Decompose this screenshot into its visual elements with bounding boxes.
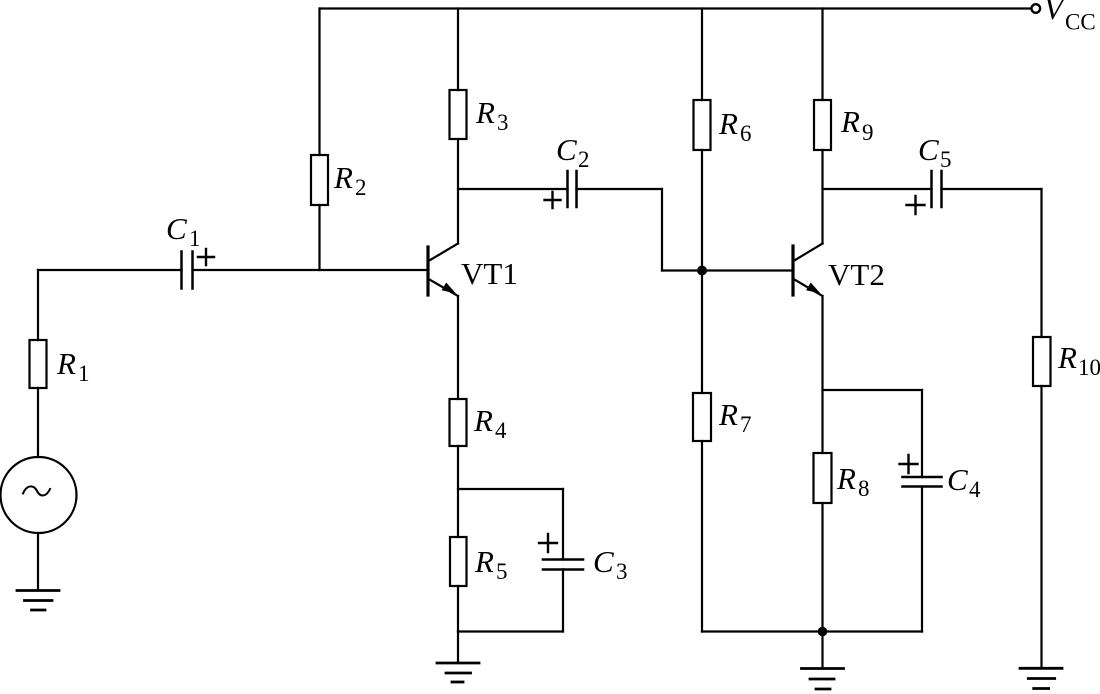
transistor VT1 <box>428 244 458 297</box>
wire R5 bottom to bottom row <box>457 586 459 632</box>
wire C4 bottom drop <box>921 487 923 632</box>
wire input node to C1 <box>38 269 182 271</box>
svg-text:4: 4 <box>969 477 981 502</box>
svg-text:C: C <box>166 211 187 246</box>
source signal generator <box>1 457 77 533</box>
svg-text:VT1: VT1 <box>461 256 518 291</box>
wire R6 top drop from rail <box>701 9 703 101</box>
svg-text:9: 9 <box>862 120 874 145</box>
svg-text:R: R <box>474 544 494 579</box>
svg-text:2: 2 <box>355 175 367 200</box>
capacitor C2 <box>568 171 577 207</box>
ground G3 <box>802 669 844 690</box>
resistor R10 <box>1033 337 1051 386</box>
wire R7 bottom drop <box>701 441 703 632</box>
svg-text:1: 1 <box>189 226 201 251</box>
plus sign of C5 <box>907 196 925 214</box>
svg-text:R: R <box>836 461 856 496</box>
capacitor C3 <box>543 560 583 570</box>
plus sign of C1 <box>198 249 214 265</box>
wire VT1 collector to C2 <box>458 188 568 190</box>
wire C3 bottom drop <box>562 570 564 632</box>
resistor R9 <box>814 100 831 150</box>
wire R9 top drop from rail <box>821 9 823 101</box>
svg-text:7: 7 <box>740 412 752 437</box>
wire emitter junction to C4 <box>823 389 923 391</box>
resistor R7 <box>693 393 711 441</box>
svg-text:R: R <box>1057 340 1077 375</box>
wire R3 top drop from rail <box>457 9 459 91</box>
svg-text:R: R <box>718 397 738 432</box>
junction node on R6 line <box>697 266 707 276</box>
wire C5 to right corner <box>942 188 1042 190</box>
wire R1 to source <box>37 388 39 457</box>
wire top VCC rail <box>320 7 1032 9</box>
wire bottom row R7 to C4 <box>702 630 922 632</box>
svg-text:R: R <box>333 160 353 195</box>
wire to VT2 base <box>662 269 793 271</box>
svg-text:10: 10 <box>1078 355 1100 380</box>
svg-text:5: 5 <box>940 147 952 172</box>
node VCC terminal <box>1032 4 1041 13</box>
resistor R4 <box>450 399 467 446</box>
wire R2 top drop from rail <box>318 9 320 156</box>
wire C3 top drop <box>562 489 564 560</box>
capacitor C1 <box>182 252 193 289</box>
wire R8 bottom to bottom row <box>821 503 823 632</box>
resistor R6 <box>694 100 711 150</box>
plus sign of C2 <box>545 192 561 208</box>
resistor R1 <box>30 340 47 388</box>
wire VT2 collector to C5 <box>823 188 932 190</box>
wire R6 bottom through node to R7 <box>701 150 703 393</box>
svg-text:R: R <box>473 403 493 438</box>
wire junction R4/R5 to C3 <box>458 488 563 490</box>
wire corner down <box>661 189 663 271</box>
wire C1 to base of VT1 <box>193 269 429 271</box>
svg-text:CC: CC <box>1065 10 1096 35</box>
wire C2 right to corner <box>577 188 663 190</box>
wire R2 bottom to base row <box>318 205 320 270</box>
wire R3 bottom to VT1 collector <box>457 139 459 244</box>
svg-text:1: 1 <box>78 361 90 386</box>
svg-text:6: 6 <box>740 121 752 146</box>
resistor R2 <box>311 155 328 205</box>
svg-text:3: 3 <box>616 559 628 584</box>
ground G4 <box>1020 668 1062 688</box>
svg-text:V: V <box>1044 0 1066 26</box>
wire VT2 emitter down through junction to R8 <box>821 296 823 453</box>
svg-text:VT2: VT2 <box>828 257 885 292</box>
junction node bottom <box>818 627 828 637</box>
svg-text:R: R <box>56 346 76 381</box>
svg-text:C: C <box>918 132 939 167</box>
svg-text:C: C <box>556 132 577 167</box>
plus sign of C4 <box>900 455 918 473</box>
wire VT1 emitter down to R4 <box>457 296 459 399</box>
wire ground stem G2 <box>457 632 459 664</box>
wire ground stem G3 <box>821 632 823 669</box>
capacitor C4 <box>903 477 942 487</box>
svg-text:5: 5 <box>496 559 508 584</box>
plus sign of C3 <box>539 534 557 552</box>
svg-text:R: R <box>475 95 495 130</box>
svg-text:R: R <box>718 106 738 141</box>
ground G1 <box>17 591 59 611</box>
wire R10 bottom to ground <box>1040 386 1042 668</box>
wire corner down to R10 <box>1040 189 1042 337</box>
wire input left drop to R1 <box>37 270 39 340</box>
svg-text:4: 4 <box>495 418 507 443</box>
wire bottom row R5 to C3 <box>458 630 563 632</box>
transistor VT2 <box>793 244 823 297</box>
wire R4 bottom through junction to R5 <box>457 446 459 537</box>
svg-text:2: 2 <box>578 147 590 172</box>
capacitor C5 <box>932 171 942 207</box>
svg-text:8: 8 <box>858 476 870 501</box>
resistor R5 <box>450 537 467 586</box>
wire R9 bottom to VT2 collector <box>821 150 823 244</box>
resistor R3 <box>450 90 467 139</box>
svg-text:3: 3 <box>497 110 509 135</box>
svg-text:R: R <box>840 104 860 139</box>
svg-text:C: C <box>947 462 968 497</box>
wire C4 top drop <box>921 390 923 477</box>
svg-text:C: C <box>593 544 614 579</box>
resistor R8 <box>814 453 832 503</box>
wire source to ground <box>37 533 39 590</box>
ground G2 <box>437 663 479 682</box>
